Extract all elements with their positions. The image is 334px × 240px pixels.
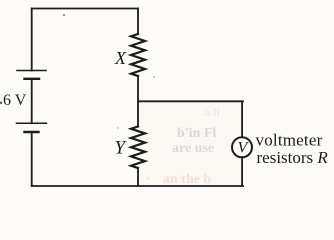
svg-text:b'in Fl: b'in Fl (177, 126, 216, 141)
svg-text:a li: a li (204, 105, 220, 119)
svg-text:an the b: an the b (163, 172, 211, 187)
svg-text:resistors R: resistors R (257, 148, 329, 167)
svg-text:voltmeter: voltmeter (256, 130, 323, 149)
svg-text:X: X (114, 48, 127, 68)
svg-text:6 V: 6 V (3, 92, 27, 109)
svg-text:are use: are use (172, 141, 214, 156)
